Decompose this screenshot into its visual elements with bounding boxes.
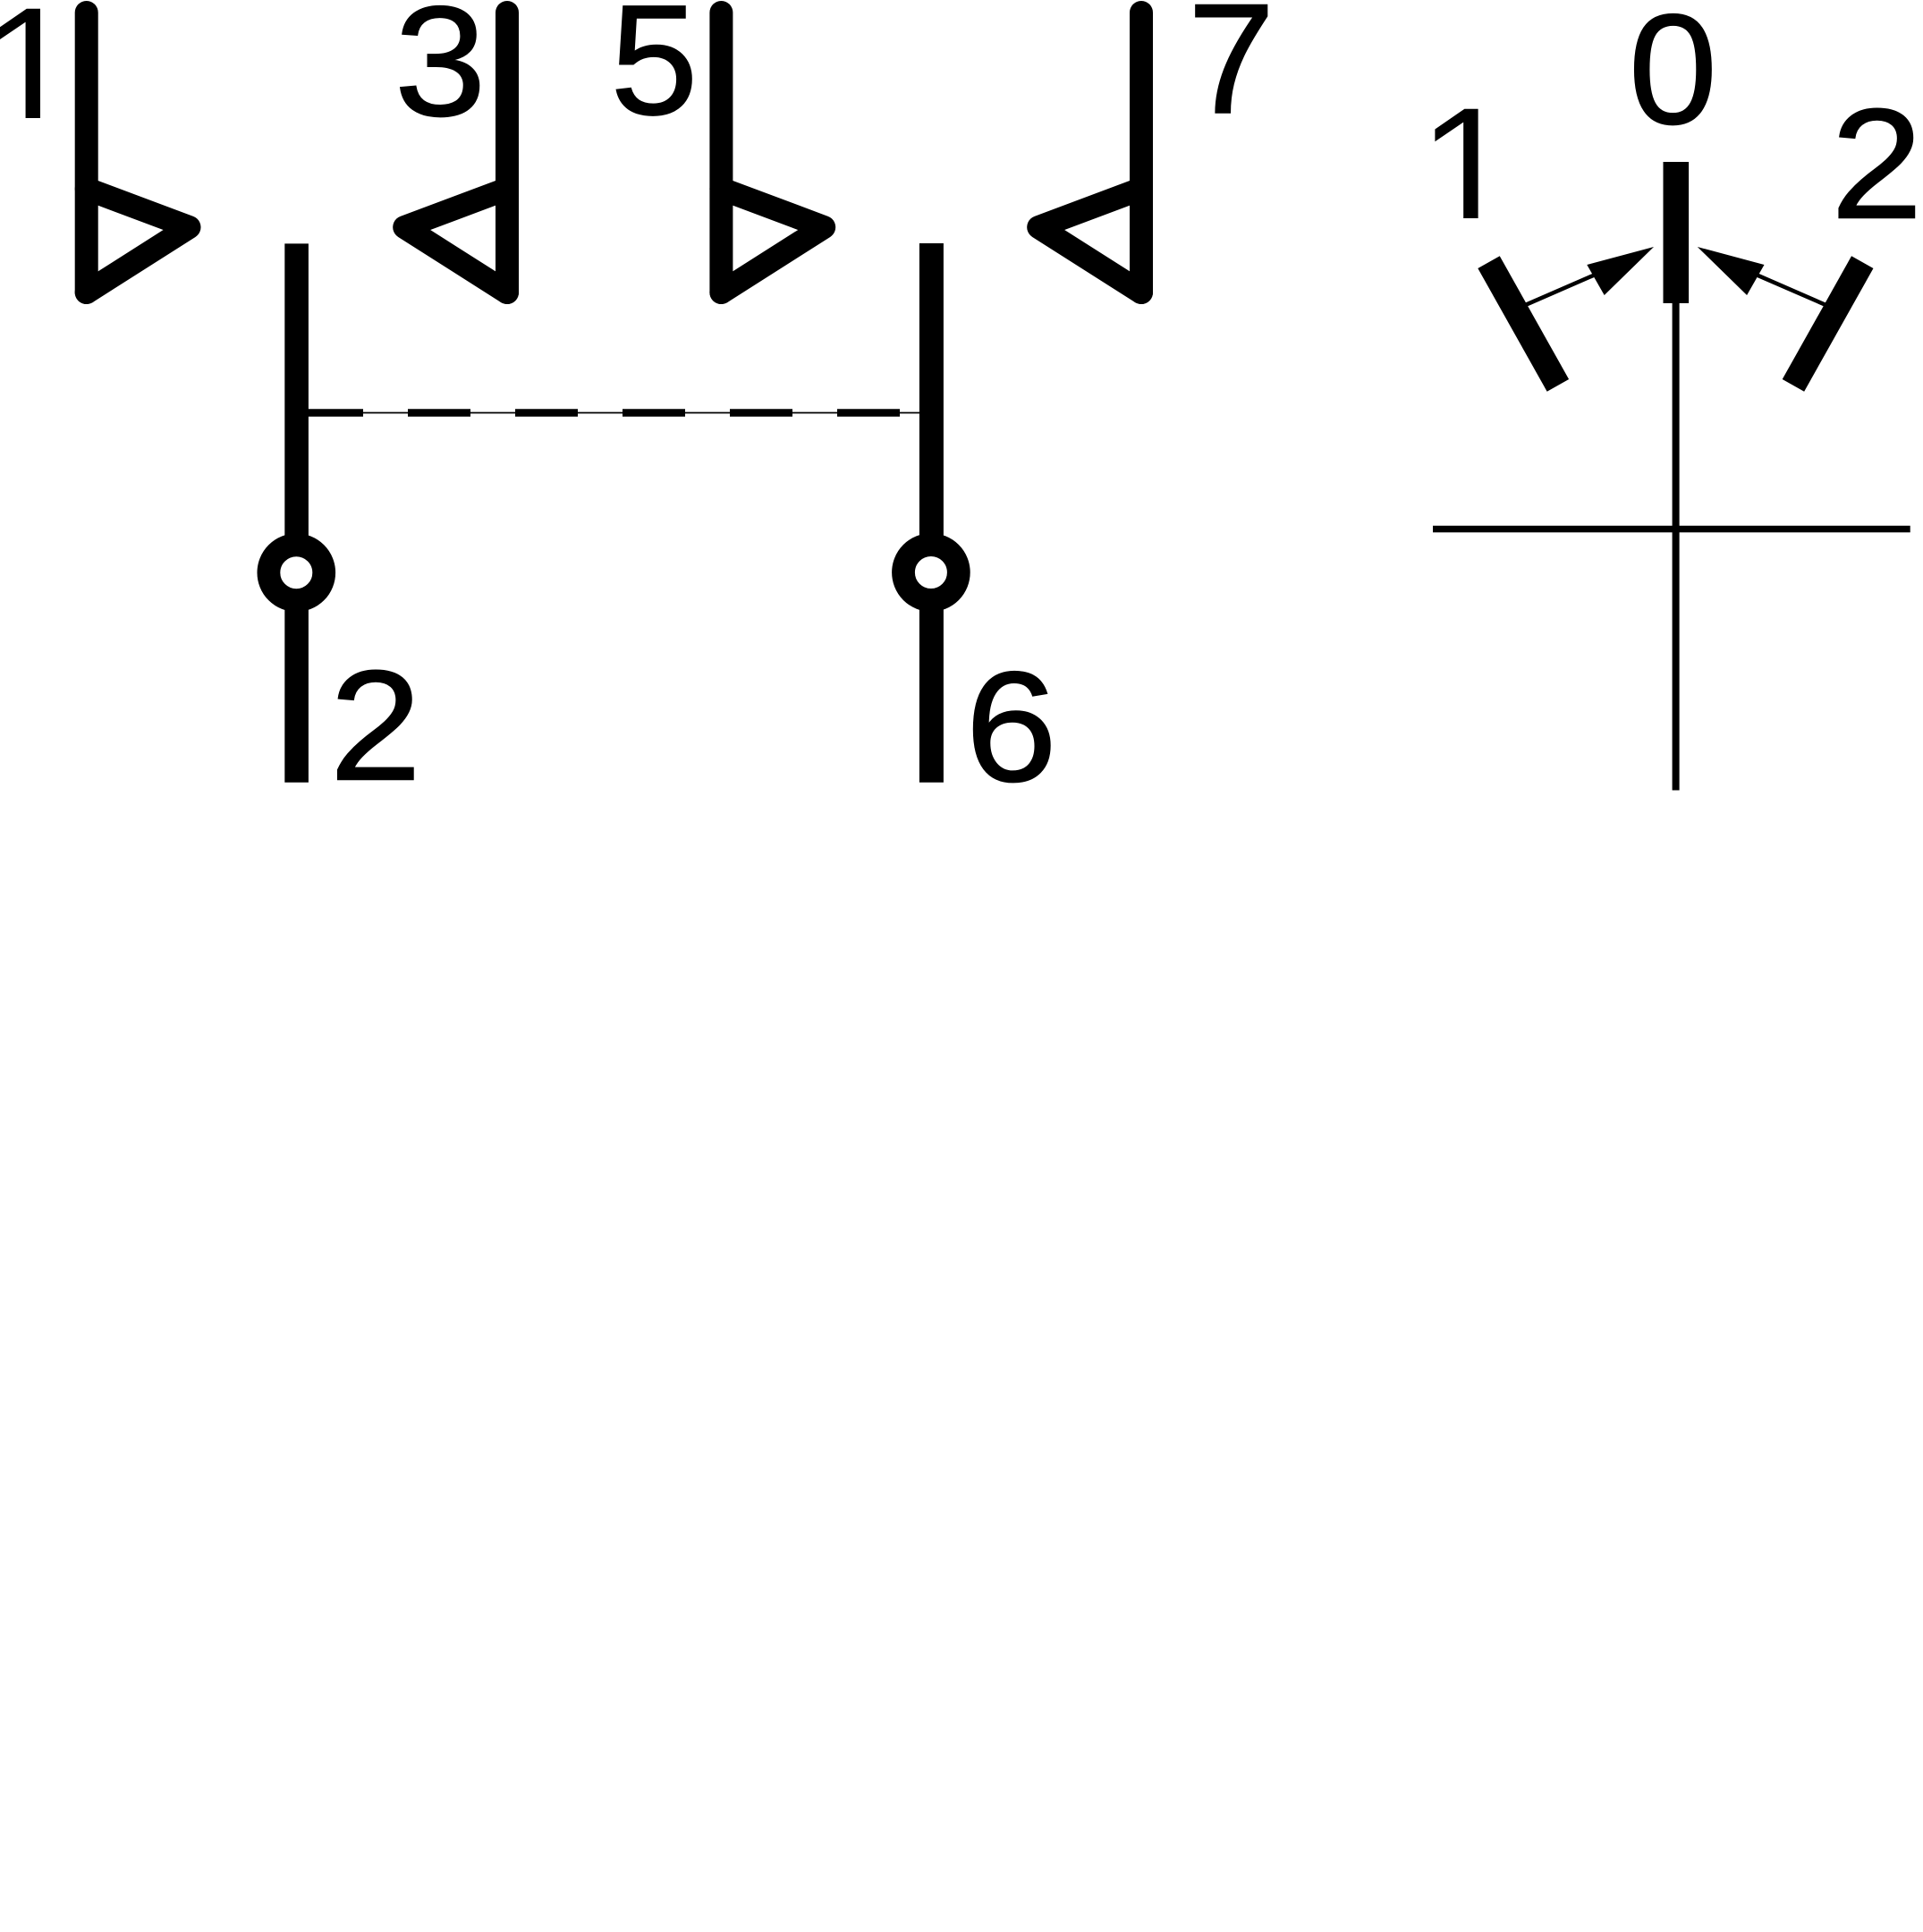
rotary indicator: handle bar at position 1 xyxy=(1478,256,1569,391)
moving contact triangle, terminal 7 xyxy=(1038,189,1141,292)
fixed contact line, terminal 1 xyxy=(75,13,98,292)
svg-text:7: 7 xyxy=(1188,0,1275,147)
svg-text:2: 2 xyxy=(1831,78,1923,252)
arrow shaft from position 2 to 0 xyxy=(1746,270,1843,312)
fixed contact line, terminal 3 xyxy=(496,13,519,292)
rotary indicator: position label 1 xyxy=(1435,109,1478,218)
rotary indicator: handle bar at position 0 xyxy=(1664,162,1690,303)
arrow head pointing to position 0 (from 2) xyxy=(1698,247,1765,295)
moving contact triangle, terminal 3 xyxy=(404,189,507,292)
contact pivot node circle, terminal 2 branch xyxy=(268,545,324,600)
arrow head pointing to position 0 (from 1) xyxy=(1587,247,1654,295)
terminal label 1 xyxy=(0,9,40,118)
moving contact triangle, terminal 1 xyxy=(87,189,190,292)
arrow shaft from position 1 to 0 xyxy=(1509,270,1605,312)
rotary indicator: horizontal axis line xyxy=(1433,526,1910,533)
fixed contact line, terminal 7 xyxy=(1130,13,1153,292)
rotary indicator: vertical axis line xyxy=(1673,303,1680,791)
wire: common pole conductor to terminal 2 xyxy=(284,243,309,782)
svg-text:6: 6 xyxy=(965,640,1057,815)
svg-text:0: 0 xyxy=(1629,0,1717,157)
svg-text:5: 5 xyxy=(610,0,698,148)
mechanical coupling link, thin continuous line xyxy=(297,412,931,414)
svg-text:3: 3 xyxy=(394,0,487,149)
moving contact triangle, terminal 5 xyxy=(721,189,824,292)
contact pivot node circle, terminal 6 branch xyxy=(903,545,959,600)
fixed contact line, terminal 5 xyxy=(709,13,733,292)
svg-text:2: 2 xyxy=(330,640,422,814)
rotary indicator: handle bar at position 2 xyxy=(1783,256,1874,391)
wire: common pole conductor to terminal 6 xyxy=(919,243,944,783)
mechanical coupling link, thick dashed overlay xyxy=(301,409,931,417)
